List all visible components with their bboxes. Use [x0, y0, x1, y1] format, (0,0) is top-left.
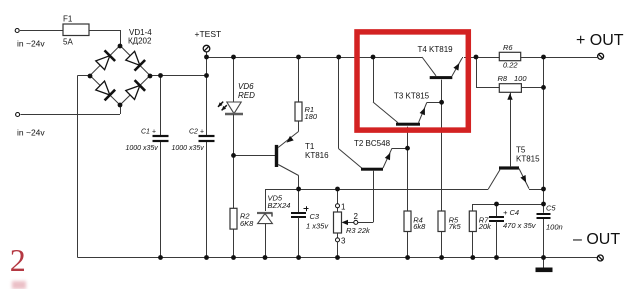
svg-text:+TEST: +TEST	[195, 29, 222, 39]
svg-text:F1: F1	[63, 15, 73, 24]
svg-text:180: 180	[305, 112, 318, 121]
svg-text:2: 2	[10, 242, 26, 278]
svg-text:470 x 35v: 470 x 35v	[503, 221, 537, 230]
svg-text:100n: 100n	[546, 223, 563, 232]
svg-text:C2 +: C2 +	[189, 129, 204, 136]
svg-text:0.22: 0.22	[503, 61, 518, 70]
svg-text:7k5: 7k5	[449, 222, 462, 231]
svg-text:1: 1	[341, 203, 346, 212]
svg-text:2: 2	[354, 212, 359, 221]
svg-text:C5: C5	[546, 204, 556, 213]
svg-text:in ~24v: in ~24v	[17, 128, 45, 138]
svg-text:RED: RED	[238, 91, 255, 100]
svg-text:+ OUT: + OUT	[576, 32, 624, 49]
svg-text:1 x35v: 1 x35v	[306, 221, 329, 230]
svg-text:BZX24: BZX24	[268, 201, 291, 210]
svg-text:T1: T1	[305, 142, 315, 151]
svg-text:6k8: 6k8	[413, 222, 426, 231]
svg-text:T2 BC548: T2 BC548	[354, 139, 391, 148]
svg-text:6K8: 6K8	[240, 219, 254, 228]
svg-text:100: 100	[514, 74, 527, 83]
svg-text:R8: R8	[498, 74, 508, 83]
svg-text:КД202: КД202	[128, 37, 152, 46]
svg-text:T5: T5	[516, 146, 526, 155]
svg-text:KT815: KT815	[516, 155, 540, 164]
svg-text:20k: 20k	[478, 222, 492, 231]
svg-text:+ C4: + C4	[503, 208, 519, 217]
svg-text:in ~24v: in ~24v	[17, 39, 45, 49]
svg-text:C3: C3	[310, 212, 320, 221]
svg-text:3: 3	[341, 237, 346, 246]
svg-text:T3 KT815: T3 KT815	[394, 92, 430, 101]
svg-text:1000 x35v: 1000 x35v	[172, 145, 205, 152]
svg-text:R6: R6	[503, 43, 513, 52]
svg-text:KT816: KT816	[305, 151, 329, 160]
svg-text:T4 KT819: T4 KT819	[418, 45, 454, 54]
svg-text:VD6: VD6	[238, 82, 254, 91]
svg-text:R3 22k: R3 22k	[346, 226, 371, 235]
svg-text:C1 +: C1 +	[141, 129, 156, 136]
svg-text:5A: 5A	[63, 37, 73, 46]
svg-text:1000 x35v: 1000 x35v	[126, 145, 159, 152]
svg-text:– OUT: – OUT	[573, 231, 620, 248]
